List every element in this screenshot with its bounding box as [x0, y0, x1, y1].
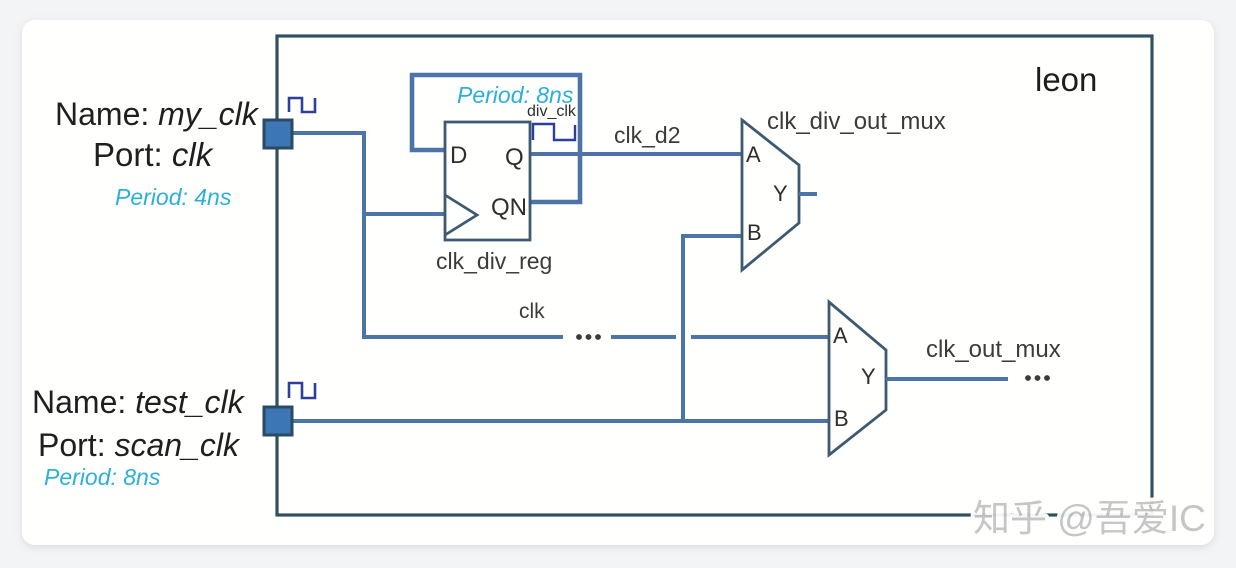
- svg-text:B: B: [747, 220, 762, 245]
- mux Y output stub: [799, 192, 817, 196]
- svg-text:clk: clk: [519, 300, 545, 323]
- port test_clk square: [264, 407, 292, 435]
- svg-text:B: B: [834, 406, 849, 431]
- wire my_clk from port to corner and down to clk net: [291, 133, 364, 337]
- wire clk net horizontal segment 3 to mux A: [691, 335, 831, 339]
- svg-text:Port: scan_clk: Port: scan_clk: [38, 427, 241, 463]
- flip-flop clk_div_reg feedback loop wire QN to D: [412, 75, 580, 202]
- wire output dots: [1025, 375, 1031, 381]
- svg-text:clk_div_out_mux: clk_div_out_mux: [767, 108, 946, 135]
- svg-text:Period: 4ns: Period: 4ns: [115, 184, 232, 210]
- wire clk net horizontal segment 2: [611, 335, 676, 339]
- mux clk_out_mux body: [829, 302, 886, 455]
- svg-text:Name: test_clk: Name: test_clk: [32, 384, 246, 420]
- wire test_clk from port to clk_out_mux B: [291, 419, 831, 423]
- flip-flop clk_div_reg body: [445, 122, 530, 240]
- mux clk_div_out_mux body: [742, 120, 799, 270]
- wire Y output of clk_out_mux: [886, 377, 1008, 381]
- svg-text:Period: 8ns: Period: 8ns: [44, 464, 161, 490]
- svg-text:Port: clk: Port: clk: [93, 136, 214, 173]
- svg-text:Y: Y: [861, 364, 876, 389]
- svg-text:clk_div_reg: clk_div_reg: [436, 248, 552, 274]
- wire clk net dots: [576, 334, 582, 340]
- waveform glyph my_clk: [289, 98, 315, 112]
- svg-text:leon: leon: [1035, 61, 1097, 98]
- svg-text:clk_d2: clk_d2: [614, 122, 680, 148]
- wire Q output clk_d2 to mux A: [530, 152, 744, 156]
- wire branch to clk_div_reg clock pin: [362, 212, 445, 216]
- svg-text:Name: my_clk: Name: my_clk: [55, 96, 260, 132]
- svg-text:Y: Y: [773, 181, 788, 206]
- wire vertical from test_clk net up to clk_div_out_mux B: [683, 236, 744, 419]
- svg-text:知乎 @吾爱IC: 知乎 @吾爱IC: [973, 498, 1206, 539]
- svg-text:clk_out_mux: clk_out_mux: [926, 336, 1061, 363]
- svg-text:div_clk: div_clk: [527, 103, 577, 120]
- svg-text:D: D: [450, 142, 467, 169]
- wire clk net horizontal segment 1: [362, 335, 563, 339]
- svg-text:A: A: [746, 142, 761, 167]
- svg-text:QN: QN: [491, 194, 527, 221]
- port my_clk square: [264, 120, 292, 148]
- module box leon: [277, 36, 1152, 515]
- svg-text:A: A: [833, 323, 848, 348]
- svg-text:Q: Q: [505, 144, 524, 171]
- waveform glyph test_clk: [289, 383, 315, 398]
- flip-flop clock triangle: [445, 195, 477, 235]
- waveform glyph div_clk: [533, 124, 575, 140]
